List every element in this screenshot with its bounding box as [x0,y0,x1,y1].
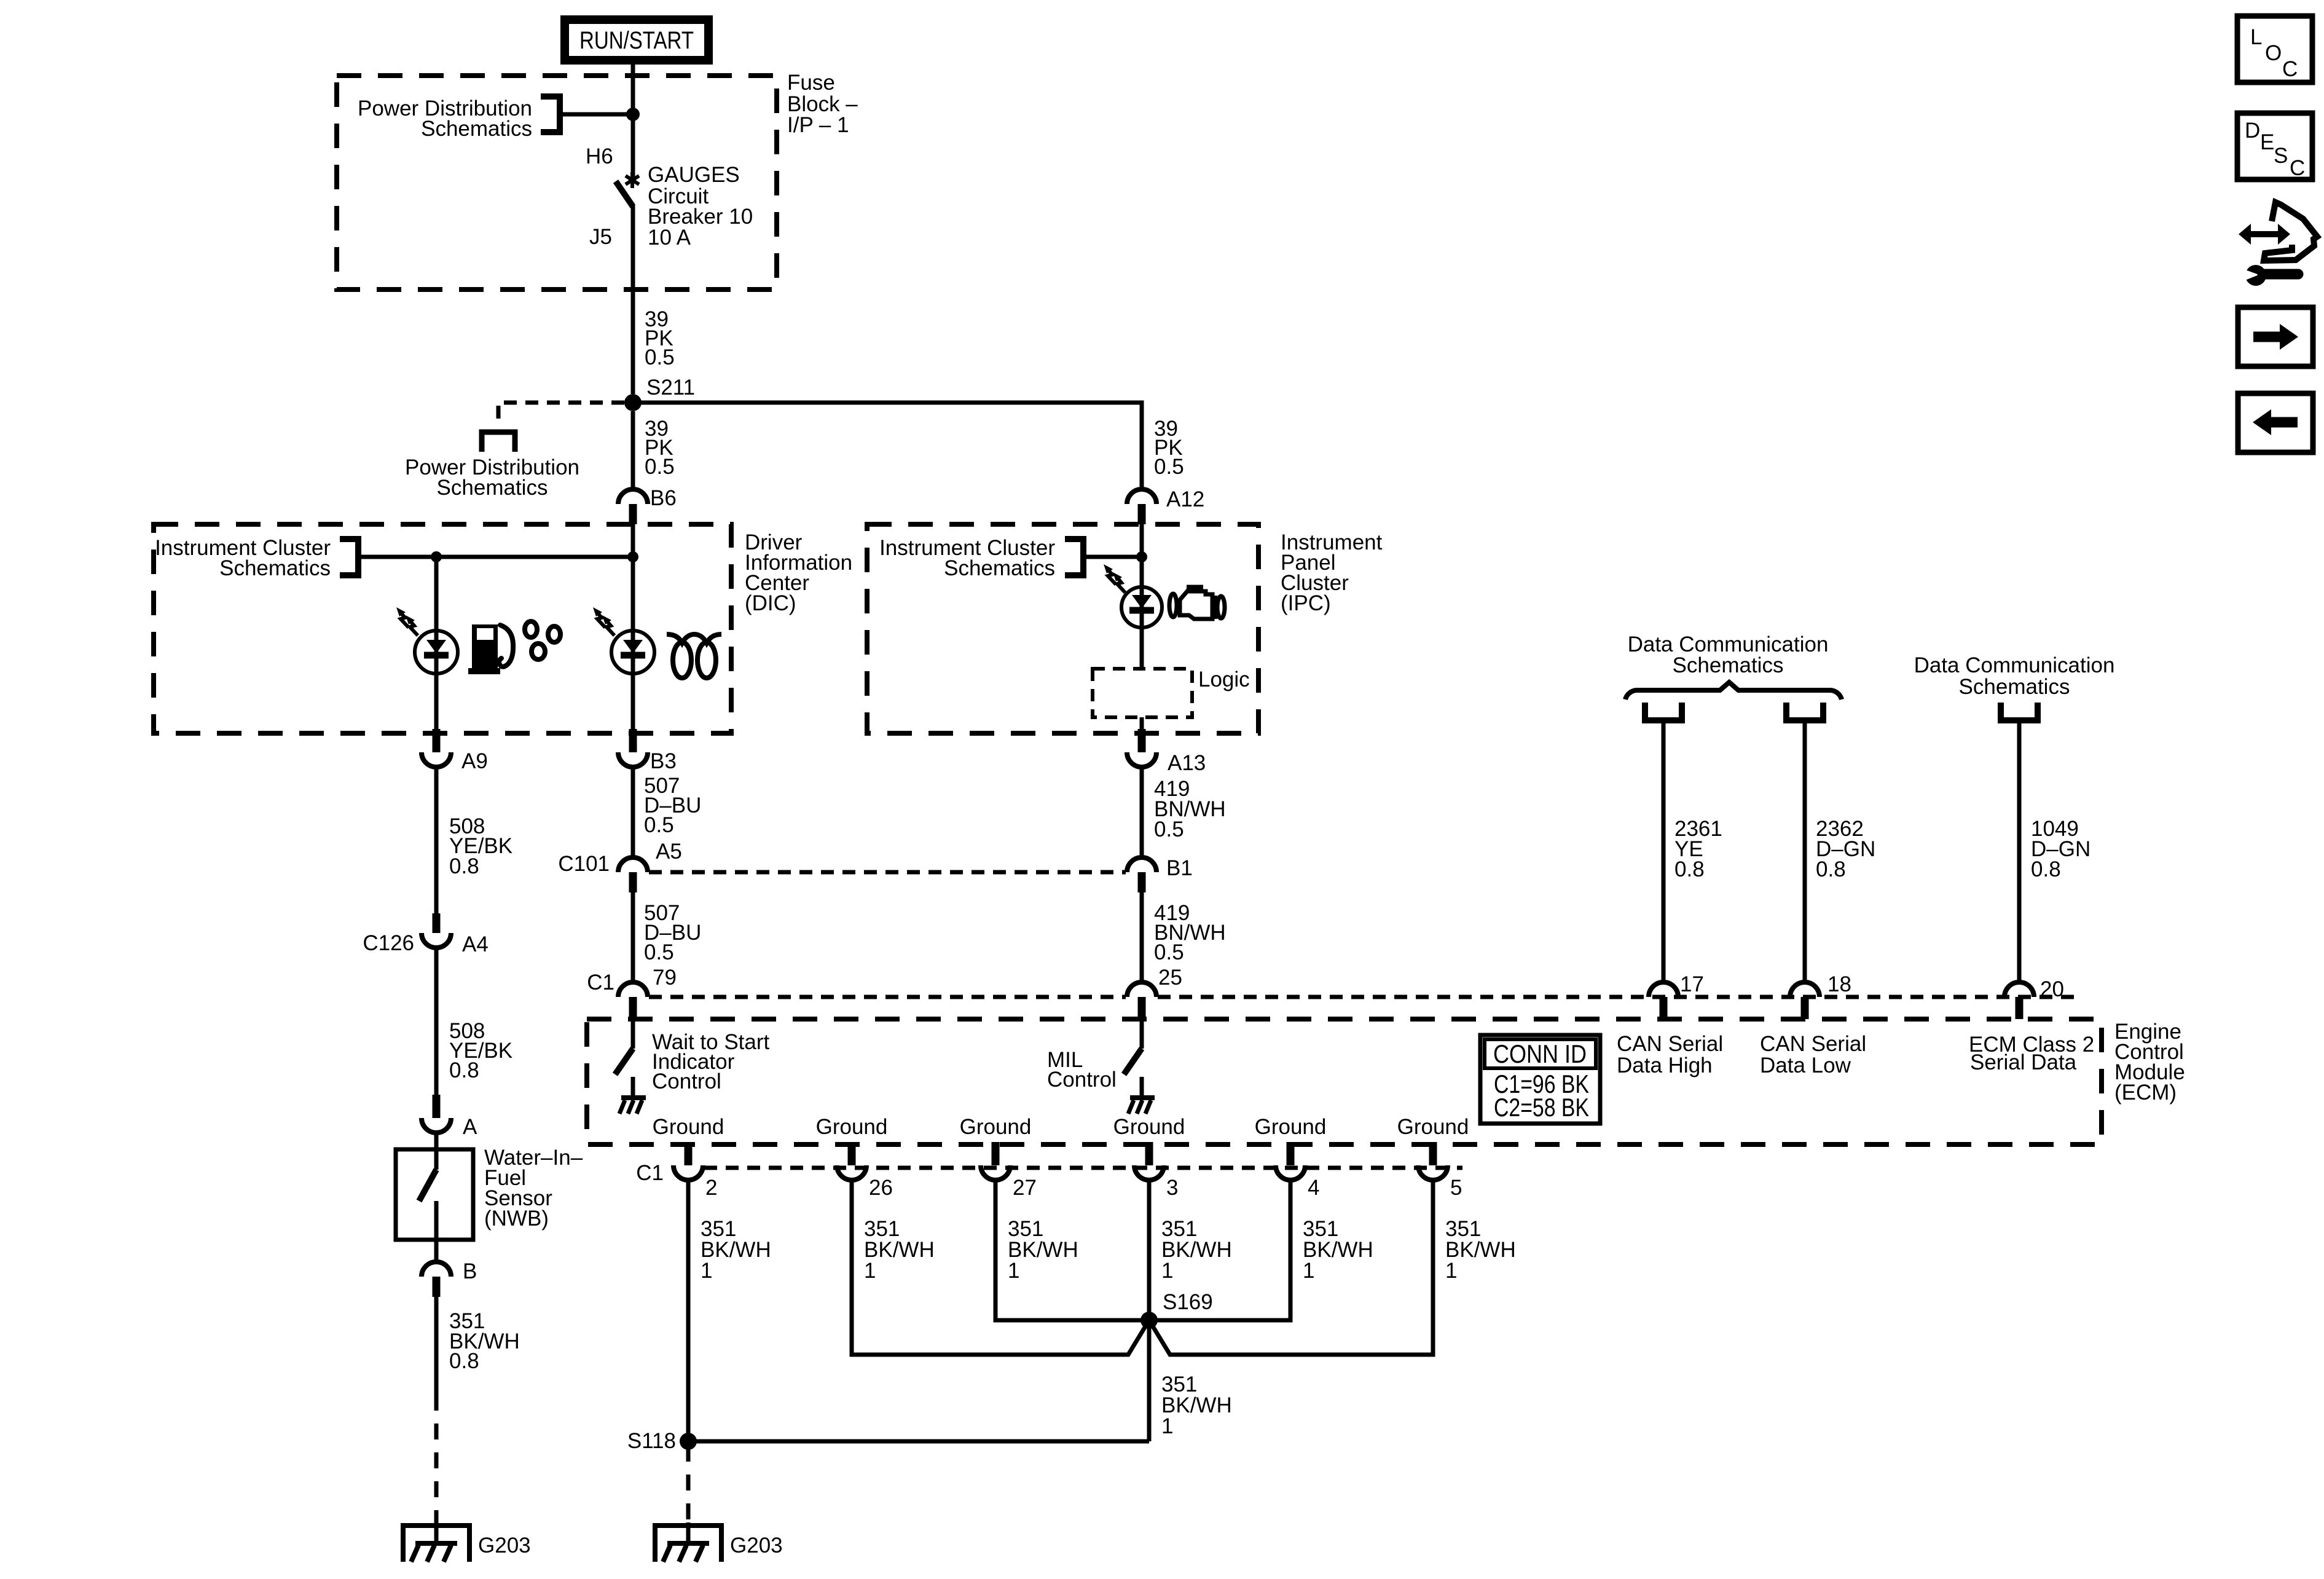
label C1 (bottom row) [636,1161,664,1185]
svg-text:O: O [2265,41,2282,65]
svg-text:(DIC): (DIC) [745,591,796,615]
Driver Information Center dashed box [154,524,731,733]
label 20 [2040,977,2064,1001]
label A12 [1166,487,1204,511]
dashed line 79 to 25 [649,995,1126,999]
svg-text:C1: C1 [636,1161,664,1185]
dashed line bottom C1 row [704,1166,1462,1170]
label pin 26 [869,1176,893,1200]
Water-In-Fuel Sensor box [396,1149,473,1240]
wire B3 to C101 [631,767,635,856]
label Wait to Start Indicator Control [652,1030,770,1093]
dashed wire S118 to G203 [686,1446,691,1522]
label CAN Serial Data High [1617,1032,1723,1077]
svg-text:A9: A9 [461,749,488,773]
wire RUN/START to fuse block [631,65,635,114]
svg-text:CONN ID: CONN ID [1493,1039,1587,1068]
node DIC right branch [627,551,638,562]
label C1 (top row) [587,971,614,994]
svg-text:0.5: 0.5 [644,940,674,964]
svg-text:Data Communication: Data Communication [1914,653,2115,677]
label B3 [650,749,677,773]
svg-text:3: 3 [1166,1176,1178,1200]
wire bracket to IPC node [1083,555,1142,559]
svg-text:Ground: Ground [960,1115,1032,1139]
wire H6 to breaker [631,114,635,178]
label B [463,1259,477,1283]
wire B down [434,1297,439,1395]
label wire 39 PK 0.5 (right branch) [1154,417,1184,479]
svg-text:RUN/START: RUN/START [579,27,694,54]
connector B1 [1127,857,1156,892]
svg-text:1: 1 [1161,1259,1173,1283]
label wire 419 BN/WH 0.5 (lower) [1154,901,1226,964]
wire sensor lower contact [434,1201,439,1262]
svg-text:0.5: 0.5 [645,455,675,479]
svg-text:0.8: 0.8 [449,1058,479,1082]
svg-text:J5: J5 [589,225,612,249]
svg-text:C126: C126 [363,931,414,955]
connector B3 [618,729,648,767]
label Water-In-Fuel Sensor (NWB) [484,1146,583,1231]
label wire 508 YE/BK 0.8 (upper) [449,814,512,878]
svg-text:25: 25 [1158,966,1182,990]
svg-text:H6: H6 [586,144,613,168]
connector ECM ground pin 26 [837,1142,866,1180]
wire S211 down to B6 [631,411,635,488]
svg-text:CAN Serial: CAN Serial [1617,1032,1723,1056]
svg-text:B3: B3 [650,749,677,773]
label wire 351 BK/WH 1 [1445,1217,1516,1283]
circuit breaker blade [616,181,633,207]
wire A5 to C1 79 [631,892,635,981]
label G203 (right) [730,1534,783,1557]
svg-text:Schematics: Schematics [1959,675,2070,699]
connector pin 17 [1649,982,1678,1019]
svg-text:S: S [2274,144,2288,168]
switch water-in-fuel sensor [419,1170,436,1201]
label S169 [1163,1290,1213,1314]
dashed wire B to G203 [434,1395,439,1522]
svg-text:B6: B6 [650,486,677,510]
wire A12 into IPC [1140,524,1144,557]
connector C1 pin 79 [618,982,648,1019]
svg-text:Ground: Ground [1255,1115,1327,1139]
svg-text:79: 79 [653,966,677,990]
svg-text:D: D [2245,119,2260,143]
wire pin 4 to S169 [1149,1180,1290,1320]
wire A to sensor box [434,1133,439,1170]
label wire 351 BK/WH 1 [701,1217,771,1283]
svg-text:20: 20 [2040,977,2064,1001]
svg-text:(IPC): (IPC) [1281,591,1331,615]
wire bracket across DIC [358,555,633,559]
svg-text:E: E [2260,130,2274,154]
wire 2362 down to 18 [1803,720,1807,981]
wire 2361 down to 17 [1662,720,1666,981]
label ECM Class 2 Serial Data [1969,1033,2094,1074]
svg-text:2: 2 [705,1176,717,1200]
svg-text:Ground: Ground [816,1115,888,1139]
label wire 351 BK/WH 1 [1008,1217,1078,1283]
label wire 39 PK 0.5 (left branch) [645,417,675,479]
splice S169 [1140,1312,1158,1329]
connector pin 18 [1790,982,1820,1019]
svg-text:(ECM): (ECM) [2114,1081,2177,1105]
dashed stub S211 to power distribution bracket [498,403,624,424]
Fuse Block - I/P - 1 dashed box [337,76,777,289]
svg-text:18: 18 [1827,972,1851,996]
indicator LED MIL (IPC) [1104,557,1162,628]
svg-text:0.5: 0.5 [1154,455,1184,479]
splice S211 [624,394,642,411]
svg-text:A12: A12 [1166,487,1204,511]
circuit breaker GAUGES contact asterisk [626,172,639,188]
water droplets icons [525,621,560,660]
switch wait-to-start indicator control [615,1049,633,1074]
icon DESC box [2237,113,2312,180]
label S211 [646,376,695,400]
label A [463,1115,477,1139]
wire LED2 to B3 [631,674,635,729]
labels Ground x6 [653,1115,1469,1139]
connector A9 [422,729,451,767]
svg-text:Schematics: Schematics [219,556,331,580]
wire LED3 to Logic box [1140,628,1144,669]
label S118 [627,1429,676,1453]
svg-text:4: 4 [1308,1176,1319,1200]
wire C126 to A [434,948,439,1097]
svg-text:1: 1 [1445,1259,1457,1283]
half-connector symbol wire 1049 [2001,703,2038,720]
svg-text:0.5: 0.5 [645,345,675,369]
label pin 3 [1166,1176,1178,1200]
mini ground (MIL) [1128,1077,1155,1114]
svg-text:A13: A13 [1168,751,1206,775]
svg-text:Schematics: Schematics [1673,653,1784,677]
wire DIC left branch down [434,557,439,631]
svg-text:S118: S118 [627,1429,676,1453]
label CAN Serial Data Low [1760,1032,1866,1077]
icon LOC box [2237,16,2312,82]
svg-text:0.8: 0.8 [2031,857,2061,881]
label A13 [1168,751,1206,775]
svg-text:1: 1 [701,1259,712,1283]
label Engine Control Module (ECM) [2114,1020,2185,1105]
svg-text:26: 26 [869,1176,893,1200]
half-connector symbol wire 2361 [1645,703,1682,720]
node DIC left branch [431,551,442,562]
label GAUGES Circuit Breaker 10 / 10 A [648,163,753,250]
icon harness repair (arrows + wrench) [2239,202,2317,286]
Instrument Panel Cluster dashed box [867,524,1258,733]
svg-text:0.8: 0.8 [1674,857,1705,881]
Logic dashed box [1093,669,1192,717]
label wire 508 YE/BK 0.8 (lower) [449,1019,512,1082]
connector ECM ground pin 3 [1134,1142,1164,1180]
dashed line C101 A5 to B1 [649,870,1126,875]
label Data Communication Schematics (left) [1628,632,1829,677]
connector ECM ground pin 2 [673,1142,703,1180]
label wire 2361 YE 0.8 [1674,817,1722,881]
svg-text:C: C [2290,156,2305,180]
icon arrow left box [2238,393,2313,452]
wire pin 2 down to S118 [686,1180,691,1441]
svg-text:Schematics: Schematics [437,476,548,500]
label pin 27 [1013,1176,1037,1200]
label Logic [1198,667,1250,691]
label Instrument Cluster Schematics (DIC) [155,536,331,580]
RUN/START power source box [565,20,709,60]
svg-text:0.8: 0.8 [449,854,479,878]
wire A9 to C126 [434,767,439,916]
svg-text:C: C [2282,57,2298,81]
svg-text:A: A [463,1115,477,1139]
mini ground (wait-to-start) [619,1077,646,1114]
svg-text:(NWB): (NWB) [484,1207,549,1231]
label B6 [650,486,677,510]
wire pin 27 to S169 [995,1180,1149,1320]
engine icon (check engine) [1169,588,1225,619]
switch MIL control [1124,1049,1142,1074]
svg-text:Data Low: Data Low [1760,1053,1851,1077]
svg-text:G203: G203 [730,1534,783,1557]
connector pin 20 [2004,982,2034,1019]
svg-text:B: B [463,1259,477,1283]
wire LED1 to A9 [434,674,439,729]
label Power Distribution Schematics (below S211) [405,455,579,500]
wire pin 3 to S169 [1147,1180,1152,1320]
label Data Communication Schematics (right) [1914,653,2115,699]
label A4 [462,932,489,956]
svg-text:1: 1 [1303,1259,1314,1283]
wire breaker to S211 [631,205,635,394]
label A9 [461,749,488,773]
svg-text:S169: S169 [1163,1290,1213,1314]
label 25 [1158,966,1182,990]
label H6 [586,144,613,168]
svg-text:A4: A4 [462,932,489,956]
connector A (water-in-fuel sensor) [422,1095,451,1133]
svg-text:Ground: Ground [1397,1115,1469,1139]
label wire 419 BN/WH 0.5 (upper) [1154,777,1226,841]
glow plug coil icon [667,634,721,678]
node junction power distribution [626,108,640,121]
label 17 [1680,972,1704,996]
wire S169 down [1147,1320,1152,1441]
bracket Instrument Cluster Schematics (DIC) [340,539,358,575]
svg-text:Control: Control [652,1069,721,1093]
svg-text:Data High: Data High [1617,1053,1713,1077]
svg-text:C2=58 BK: C2=58 BK [1494,1093,1589,1122]
svg-text:Logic: Logic [1198,667,1250,691]
label wire 351 BK/WH 1 [1303,1217,1373,1283]
svg-text:Ground: Ground [653,1115,724,1139]
icon arrow right box [2238,307,2313,366]
label wire 351 BK/WH 0.8 [449,1309,520,1373]
fork symbol power distribution [482,424,515,452]
connector B [422,1262,451,1297]
wire pin 26 to S169 [852,1180,1149,1355]
label C126 [363,931,414,955]
fuel pump icon [468,624,513,674]
ground G203 (left) [403,1522,469,1562]
connector ECM ground pin 5 [1418,1142,1448,1180]
svg-text:10 A: 10 A [648,226,691,250]
half-connector symbol wire 2362 [1786,703,1823,720]
svg-text:C101: C101 [558,852,610,876]
label 18 [1827,972,1851,996]
svg-text:L: L [2250,25,2262,49]
wire B6 into DIC [631,524,635,557]
svg-text:27: 27 [1013,1176,1037,1200]
svg-text:0.8: 0.8 [1816,857,1846,881]
wire S211 to A12 corner [633,403,1142,489]
connector ECM ground pin 4 [1276,1142,1305,1180]
label wire 2362 D-GN 0.8 [1816,817,1875,881]
svg-text:S211: S211 [646,376,695,400]
label pin 5 [1450,1176,1462,1200]
wire S169 to S118 [688,1439,1149,1444]
label wire 39 PK 0.5 (upper) [645,307,675,369]
indicator LED wait-to-start (DIC) [593,607,654,674]
label Instrument Cluster Schematics (IPC) [879,536,1055,580]
svg-text:C1: C1 [587,971,614,994]
label B1 [1166,856,1193,880]
dashed line 25 to 17 18 20 [1158,995,2077,999]
wire Logic to A13 [1140,717,1144,729]
wire pin 5 to S169 [1149,1180,1433,1355]
svg-text:Fuse: Fuse [787,71,835,95]
svg-text:0.5: 0.5 [1154,817,1184,841]
svg-text:0.5: 0.5 [1154,940,1184,964]
svg-text:GAUGES: GAUGES [648,163,740,187]
label J5 [589,225,612,249]
svg-text:G203: G203 [478,1534,531,1557]
label Instrument Panel Cluster (IPC) [1281,530,1383,615]
CONN ID table [1480,1035,1600,1124]
svg-text:Ground: Ground [1113,1115,1185,1139]
wire bracket to node [560,112,633,117]
splice S118 [680,1433,697,1450]
Engine Control Module dashed box [587,1019,2102,1144]
label 79 [653,966,677,990]
wire B1 to 25 [1140,892,1144,981]
svg-text:B1: B1 [1166,856,1193,880]
svg-text:5: 5 [1450,1176,1462,1200]
wire into wait-to-start switch [631,1019,635,1049]
svg-text:0.8: 0.8 [449,1349,479,1373]
label G203 (left) [478,1534,531,1557]
connector C101 A5 [618,857,648,892]
connector C126 A4 [422,913,451,948]
label wire 507 D-BU 0.5 (upper) [644,774,701,837]
connector ECM ground pin 27 [981,1142,1010,1180]
svg-text:CAN Serial: CAN Serial [1760,1032,1866,1056]
label Power Distribution Schematics (fuse block) [358,96,532,141]
svg-text:0.5: 0.5 [644,813,674,837]
label wire 351 BK/WH 1 [864,1217,935,1283]
svg-text:Schematics: Schematics [944,556,1055,580]
svg-text:A5: A5 [656,840,682,864]
svg-text:Serial Data: Serial Data [1970,1050,2077,1074]
connector A12 [1127,489,1156,524]
svg-text:1: 1 [864,1259,876,1283]
node IPC branch [1136,551,1147,562]
svg-text:I/P – 1: I/P – 1 [787,113,849,137]
svg-text:1: 1 [1008,1259,1019,1283]
wire DIC right branch down [631,557,635,631]
connector A13 [1127,729,1156,767]
bracket Power Distribution Schematics (fuse block) [541,96,560,132]
ground G203 (right) [655,1522,721,1562]
wire A13 to B1 [1140,767,1144,856]
connector pin 25 [1127,982,1156,1019]
curly brace data communication [1625,682,1842,699]
wire 1049 down to 20 [2017,720,2022,981]
label wire 351 BK/WH 1 [1161,1217,1232,1283]
wire into MIL switch [1140,1019,1144,1049]
svg-text:Control: Control [1047,1068,1117,1092]
svg-text:17: 17 [1680,972,1704,996]
connector B6 [618,489,648,524]
label wire 351 BK/WH 1 (S169 to S118) [1161,1372,1232,1438]
label Driver Information Center (DIC) [745,530,852,615]
bracket Instrument Cluster Schematics (IPC) [1065,539,1083,575]
label C101 [558,852,610,876]
label wire 507 D-BU 0.5 (lower) [644,901,701,964]
label pin 4 [1308,1176,1319,1200]
label wire 1049 D-GN 0.8 [2031,817,2090,881]
label pin 2 [705,1176,717,1200]
svg-text:Schematics: Schematics [421,117,532,141]
label Fuse Block - I/P - 1 [787,71,858,137]
indicator LED water-in-fuel (DIC) [396,607,458,674]
svg-text:1: 1 [1161,1414,1173,1438]
label A5 [656,840,682,864]
label MIL Control [1047,1048,1117,1092]
